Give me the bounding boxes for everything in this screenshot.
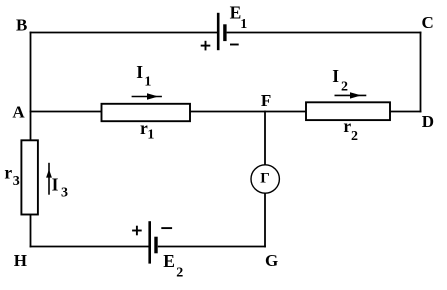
wire galvanometer to G <box>264 193 266 247</box>
arrow I2 <box>335 92 367 98</box>
svg-text:I: I <box>136 62 143 82</box>
wire r3 to H (left vertical lower) <box>30 215 32 248</box>
label E1 <box>230 2 248 31</box>
wire H to E2 (bottom left horizontal) <box>30 246 149 248</box>
svg-text:1: 1 <box>240 17 247 32</box>
label I1 <box>136 62 151 90</box>
resistor r1 <box>102 104 191 121</box>
svg-text:I: I <box>332 66 339 86</box>
resistor r2 <box>306 102 390 120</box>
svg-text:C: C <box>422 13 434 32</box>
minus sign of E2 <box>161 227 172 229</box>
node C <box>422 13 434 32</box>
node A <box>12 103 25 122</box>
svg-text:1: 1 <box>147 128 154 143</box>
arrow I1 <box>132 93 162 99</box>
svg-text:2: 2 <box>176 266 183 281</box>
svg-text:G: G <box>265 251 278 270</box>
svg-text:r: r <box>4 162 12 182</box>
label r2 <box>343 116 358 144</box>
wire A to r1 <box>30 111 102 113</box>
label I2 <box>332 66 348 94</box>
wire B to E1 (top left horizontal) <box>30 32 217 34</box>
svg-text:1: 1 <box>144 75 151 90</box>
svg-text:Г: Г <box>260 171 270 187</box>
svg-text:2: 2 <box>341 79 348 94</box>
svg-text:D: D <box>422 112 434 131</box>
svg-text:3: 3 <box>13 174 20 189</box>
node F <box>261 91 271 110</box>
svg-text:H: H <box>14 251 27 270</box>
svg-text:3: 3 <box>61 185 68 200</box>
plus sign of E2 <box>132 226 142 236</box>
node B <box>16 16 27 35</box>
battery E2 <box>150 221 156 263</box>
label I3 <box>52 174 68 200</box>
wire r1 to r2 through F <box>190 111 306 113</box>
svg-text:I: I <box>52 174 59 194</box>
wire r2 to D <box>390 111 421 113</box>
node G <box>265 251 278 270</box>
battery E1 <box>218 13 225 50</box>
wire B to A to r3 (left vertical) <box>30 32 32 141</box>
label r3 <box>4 162 19 189</box>
node H <box>14 251 27 270</box>
arrow I3 <box>46 163 52 195</box>
label E2 <box>163 251 183 281</box>
galvanometer G meter <box>251 165 279 193</box>
minus sign of E1 <box>230 44 239 46</box>
svg-text:A: A <box>12 103 25 122</box>
label r1 <box>140 118 154 143</box>
svg-text:2: 2 <box>351 129 358 144</box>
resistor r3 <box>21 140 38 214</box>
svg-text:F: F <box>261 91 271 110</box>
node D <box>422 112 434 131</box>
svg-text:B: B <box>16 16 27 35</box>
svg-text:E: E <box>163 251 175 271</box>
wire E2 to G (bottom right horizontal) <box>158 246 266 248</box>
plus sign of E1 <box>201 41 211 51</box>
wire F to galvanometer <box>264 111 266 165</box>
wire C to D (right vertical) <box>420 32 422 113</box>
wire E1 to C (top right horizontal) <box>227 32 422 34</box>
